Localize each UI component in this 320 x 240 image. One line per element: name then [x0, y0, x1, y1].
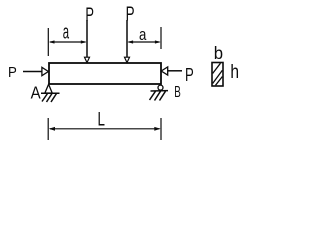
cross-section hatch [213, 63, 221, 73]
dimension line a right [129, 41, 160, 43]
svg-text:a: a [63, 21, 70, 43]
wire load line P2 [126, 20, 128, 58]
svg-text:P: P [185, 65, 194, 86]
support B ground line [151, 90, 169, 92]
wire load line P1 [86, 20, 88, 58]
arrowhead load P2 [125, 57, 130, 62]
svg-text:h: h [230, 61, 239, 83]
support A hatch [42, 94, 48, 102]
support B roller [158, 85, 163, 90]
svg-text:B: B [174, 83, 181, 101]
extension tick right [160, 27, 162, 49]
wire axial P right [168, 70, 182, 72]
arrowhead axial P right [161, 67, 168, 75]
svg-text:P: P [85, 3, 94, 25]
svg-text:P: P [8, 64, 17, 81]
support A pin triangle [45, 84, 52, 93]
support B hatch [150, 91, 156, 100]
beam [49, 63, 161, 84]
L dimension ticks [47, 118, 49, 140]
svg-text:A: A [31, 84, 41, 103]
svg-text:a: a [139, 26, 147, 45]
L dimension line [50, 128, 160, 130]
support A ground line [41, 92, 60, 94]
svg-text:L: L [98, 109, 105, 130]
svg-text:P: P [126, 3, 135, 25]
cross-section rectangle [212, 63, 223, 87]
svg-text:b: b [214, 43, 223, 64]
wire axial P left [23, 71, 42, 73]
arrowhead axial P left [42, 67, 49, 75]
dimension line a left [50, 41, 86, 43]
extension tick left [47, 28, 49, 56]
arrowhead load P1 [85, 57, 90, 62]
